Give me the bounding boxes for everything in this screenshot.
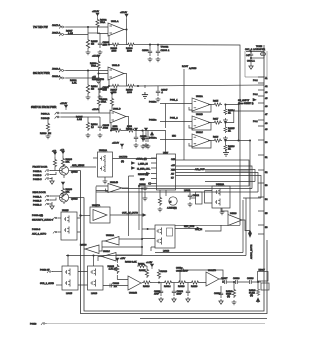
svg-text:R3010: R3010 xyxy=(178,286,185,288)
svg-text:TP3002: TP3002 xyxy=(161,47,169,49)
power up arrow xyxy=(150,132,153,138)
transistor Q3015 xyxy=(59,193,78,202)
wire output to node column xyxy=(124,29,127,31)
svg-text:P3-2: P3-2 xyxy=(253,121,258,123)
junction xyxy=(138,185,139,186)
svg-text:P3013: P3013 xyxy=(30,324,37,326)
resistor R3015 xyxy=(139,266,149,278)
junction xyxy=(80,215,82,217)
svg-text:C3013: C3013 xyxy=(113,283,120,285)
wire xyxy=(136,44,151,46)
ground xyxy=(220,208,225,215)
svg-text:TONE: TONE xyxy=(256,46,263,48)
wire xyxy=(61,117,88,121)
svg-text:1000: 1000 xyxy=(127,126,133,128)
svg-text:(A): (A) xyxy=(121,160,124,163)
ground big xyxy=(142,92,148,98)
wire xyxy=(50,171,59,180)
wire xyxy=(96,186,129,191)
wire emitter down + ground xyxy=(50,175,64,184)
junction xyxy=(93,255,94,256)
op-amp U302B xyxy=(189,114,211,130)
connector pin J1018-A xyxy=(52,68,66,73)
svg-text:100P: 100P xyxy=(177,294,183,296)
svg-text:J3017-A: J3017-A xyxy=(52,32,61,35)
svg-text:1M: 1M xyxy=(91,44,94,46)
svg-text:P301_1: P301_1 xyxy=(170,100,178,102)
svg-text:U3014B: U3014B xyxy=(110,182,118,184)
wire xyxy=(251,57,264,59)
resistor R1030 xyxy=(126,43,135,52)
resistor R3018 xyxy=(157,269,167,279)
connector P3-2 edge rail xyxy=(263,45,265,240)
resistor R1024 xyxy=(86,121,98,131)
connector pins xyxy=(45,195,51,201)
resistor R1020 xyxy=(120,84,135,93)
feedback box inner xyxy=(84,198,264,312)
capacitor C311 xyxy=(144,128,149,148)
ground xyxy=(223,118,228,123)
svg-text:X1R: X1R xyxy=(171,170,176,172)
svg-text:C3012: C3012 xyxy=(193,195,200,197)
svg-text:M: M xyxy=(170,202,172,204)
net label P3010_3 xyxy=(149,136,176,140)
svg-text:U302B: U302B xyxy=(196,114,203,116)
wire to op-amp + xyxy=(99,70,109,74)
wire feedback xyxy=(109,80,111,86)
net ROST_Av7059 xyxy=(182,66,197,160)
svg-text:R319: R319 xyxy=(213,137,219,139)
svg-text:P3015-C: P3015-C xyxy=(33,179,42,181)
wire xyxy=(88,116,100,118)
svg-text:P3011-A: P3011-A xyxy=(33,196,42,199)
junction xyxy=(250,57,251,58)
node label C3C_A xyxy=(245,46,265,51)
svg-text:C3017: C3017 xyxy=(221,278,228,280)
svg-text:J3018-A: J3018-A xyxy=(52,68,61,71)
svg-text:REAR DOOR: REAR DOOR xyxy=(33,191,47,194)
net D/A xyxy=(195,225,221,231)
resistor R1032 xyxy=(96,18,107,28)
svg-text:P301_2: P301_2 xyxy=(170,118,178,120)
capacitor C3017 series xyxy=(221,278,232,284)
wire xyxy=(200,279,223,283)
ground xyxy=(103,177,108,184)
svg-text:1.0M: 1.0M xyxy=(68,33,73,35)
svg-text:R317: R317 xyxy=(213,119,219,121)
svg-text:R1023: R1023 xyxy=(40,133,47,135)
svg-text:C3C7A8: C3C7A8 xyxy=(119,156,128,159)
svg-text:J3017-A: J3017-A xyxy=(52,24,61,27)
wire xyxy=(142,229,155,251)
svg-text:C3C_A: C3C_A xyxy=(245,48,253,51)
power +15.0V xyxy=(92,55,100,60)
svg-text:4.5MH(M): 4.5MH(M) xyxy=(167,208,177,210)
bias divider chain xyxy=(92,88,108,113)
resistor R1028 label xyxy=(70,80,77,85)
resistor R317 xyxy=(211,119,222,125)
wire xyxy=(87,71,89,79)
net label R3020 xyxy=(120,258,137,264)
junction xyxy=(158,282,159,283)
svg-text:10K: 10K xyxy=(66,162,70,164)
resistor R1015 xyxy=(86,38,98,50)
resistor R1019 xyxy=(112,126,123,132)
ground xyxy=(86,133,91,138)
svg-text:AUDIO_MUTE: AUDIO_MUTE xyxy=(250,244,253,259)
junction xyxy=(225,104,226,105)
connector pin J1017-A xyxy=(52,24,66,29)
net label P3010_1 xyxy=(149,100,178,104)
svg-text:P3015-B: P3015-B xyxy=(33,175,42,177)
wire xyxy=(50,196,59,204)
svg-text:R315: R315 xyxy=(213,101,219,103)
svg-text:Q3015: Q3015 xyxy=(71,199,78,201)
ground xyxy=(98,95,103,100)
svg-text:U301C: U301C xyxy=(103,251,110,253)
junction xyxy=(147,228,148,229)
svg-text:R3020 2.2K: R3020 2.2K xyxy=(125,262,137,264)
ground xyxy=(141,144,146,149)
capacitor C3013 xyxy=(110,283,120,288)
IC L3015 xyxy=(62,266,78,295)
net REF_DCS xyxy=(175,226,200,230)
svg-text:1000: 1000 xyxy=(127,50,133,52)
svg-text:R3110: R3110 xyxy=(191,286,198,288)
svg-text:MKF: MKF xyxy=(140,179,145,181)
net OUT_AV_OUT xyxy=(110,212,146,217)
inductor L3010 xyxy=(166,190,177,210)
svg-text:LOUDSPKR: LOUDSPKR xyxy=(253,49,265,51)
wire xyxy=(88,32,100,34)
svg-text:1M: 1M xyxy=(91,89,94,91)
wire channel2 output to right edge xyxy=(136,85,265,86)
resistor R3548 xyxy=(249,282,260,297)
net label P3010_2 xyxy=(149,118,178,122)
resistor R3546 xyxy=(226,282,236,305)
resistor R1033 xyxy=(90,60,100,70)
wire feed 2 xyxy=(155,200,243,253)
wire xyxy=(120,44,127,46)
svg-text:A/D_OUT: A/D_OUT xyxy=(195,168,205,171)
wire to op-amp + input xyxy=(98,28,109,34)
svg-text:AUX_2_AUTO: AUX_2_AUTO xyxy=(32,233,46,236)
wire xyxy=(250,58,252,64)
wire feedback xyxy=(111,123,113,131)
power +15V xyxy=(52,151,57,158)
wire output down xyxy=(126,117,129,131)
svg-text:U3018A: U3018A xyxy=(106,234,114,237)
svg-text:R1021: R1021 xyxy=(126,128,133,130)
connector pins xyxy=(45,170,51,176)
junction xyxy=(141,188,142,189)
small box K3017 xyxy=(261,283,269,290)
power +15V xyxy=(146,261,154,269)
wire from Q3013 right xyxy=(69,170,81,172)
svg-text:ROST: ROST xyxy=(182,66,189,68)
capacitor C3019 series xyxy=(246,278,258,284)
svg-text:R3018: R3018 xyxy=(161,271,168,273)
svg-text:OUT_AV_OUTS: OUT_AV_OUTS xyxy=(122,212,138,215)
wire xyxy=(144,85,146,88)
op-amp U3018A xyxy=(105,234,119,245)
resistor R1025 label xyxy=(76,117,83,122)
svg-text:C1039 .1: C1039 .1 xyxy=(161,50,171,52)
capacitor C1035 xyxy=(98,117,110,131)
connector pin P1064-A xyxy=(41,112,61,116)
svg-text:Av7059: Av7059 xyxy=(189,67,197,70)
capacitor C1047 xyxy=(156,86,168,97)
resistor R1014 xyxy=(86,83,98,95)
node label P3013 xyxy=(30,323,265,326)
wire xyxy=(225,111,258,123)
svg-text:P3030-6: P3030-6 xyxy=(32,229,41,231)
svg-text:(A): (A) xyxy=(227,295,230,298)
wire xyxy=(136,131,166,155)
power +15.0V below xyxy=(112,143,124,150)
junction xyxy=(87,26,88,27)
junction xyxy=(222,281,223,282)
feedback box outer xyxy=(81,171,268,314)
IC L3013 xyxy=(155,225,175,253)
svg-text:1M: 1M xyxy=(48,133,51,135)
wire from Q3015 right xyxy=(69,197,84,199)
capacitor C3018 series xyxy=(232,278,246,284)
svg-text:R1019: R1019 xyxy=(112,128,119,130)
node label REAR DOOR xyxy=(33,191,47,207)
resistor R330 xyxy=(158,190,163,212)
ground open xyxy=(249,64,253,69)
svg-text:.1A: .1A xyxy=(114,285,118,288)
svg-text:P3010s: P3010s xyxy=(149,120,157,122)
wire xyxy=(77,218,81,232)
svg-text:7% THD PW: 7% THD PW xyxy=(33,25,48,29)
ground big xyxy=(223,150,229,156)
wire xyxy=(99,241,142,251)
resistor R3110 xyxy=(187,281,200,288)
svg-text:C3018: C3018 xyxy=(233,278,240,280)
wire xyxy=(225,105,238,141)
wire between boxes xyxy=(78,272,88,286)
wire xyxy=(66,35,89,39)
junction xyxy=(98,73,99,74)
svg-text:MIC: MIC xyxy=(172,136,176,138)
vertical bus xyxy=(165,104,167,129)
wire xyxy=(225,140,250,142)
svg-text:+15.0V: +15.0V xyxy=(92,109,100,111)
resistor R319 xyxy=(211,137,222,143)
wire xyxy=(66,78,89,83)
node label SUB_2_AUX xyxy=(40,282,62,285)
IC U3015 xyxy=(61,210,77,240)
junction xyxy=(108,85,109,86)
capacitor C3011 xyxy=(154,283,163,303)
svg-text:+15.0V: +15.0V xyxy=(120,12,128,14)
wire junction xyxy=(157,44,158,45)
wire feedback top xyxy=(180,269,223,283)
svg-text:P3011-C: P3011-C xyxy=(33,205,42,207)
net labels caps xyxy=(176,268,189,273)
net +15 R1029 xyxy=(92,77,105,82)
capacitor C3015 xyxy=(186,283,190,303)
wire input xyxy=(81,215,91,217)
rail third xyxy=(140,318,267,320)
op-amp U3019B xyxy=(128,276,141,295)
svg-text:+15.0V: +15.0V xyxy=(92,11,100,13)
IC U3017A xyxy=(90,204,110,223)
node label AUX AUTO xyxy=(32,229,61,236)
resistor R3021 xyxy=(137,264,147,268)
svg-text:(from SHEET 2): (from SHEET 2) xyxy=(238,102,254,105)
junction xyxy=(110,130,111,131)
net SE_AMPLT xyxy=(238,99,256,106)
wire xyxy=(152,282,164,284)
svg-text:SUB_2_AUX8: SUB_2_AUX8 xyxy=(40,282,55,285)
resistor R3016 xyxy=(141,281,152,288)
power +15.0V xyxy=(92,11,100,18)
ground xyxy=(96,74,101,84)
svg-text:P3-2: P3-2 xyxy=(253,80,258,82)
ground xyxy=(146,144,151,149)
svg-text:AU: AU xyxy=(171,173,174,176)
svg-text:C4P: C4P xyxy=(246,55,251,57)
small box xyxy=(190,192,202,204)
resistor R3010 xyxy=(173,281,187,288)
wire xyxy=(87,27,89,35)
svg-text:C3016: C3016 xyxy=(214,293,221,295)
svg-text:U4019A: U4019A xyxy=(216,183,224,186)
svg-text:P1064-A: P1064-A xyxy=(41,113,50,116)
resistor R3035 xyxy=(53,157,56,171)
wire xyxy=(61,112,110,114)
wire xyxy=(66,70,89,72)
resistor R320 xyxy=(224,141,235,151)
svg-text:(A): (A) xyxy=(250,294,253,297)
wire to op-amp - xyxy=(109,112,112,114)
node label FRONT DOOR xyxy=(33,167,48,182)
svg-text:470P: 470P xyxy=(154,294,160,296)
svg-text:U302A: U302A xyxy=(196,95,203,98)
junction xyxy=(225,122,226,123)
IC U4019 xyxy=(205,183,231,208)
svg-text:U302C: U302C xyxy=(196,132,203,134)
power +15V xyxy=(60,150,65,157)
power +15.0V feed xyxy=(110,92,113,110)
svg-text:P3-2: P3-2 xyxy=(253,94,258,96)
svg-text:P3011-B: P3011-B xyxy=(33,201,42,203)
resistor R3036 xyxy=(61,156,72,167)
svg-text:P3010a: P3010a xyxy=(149,138,157,140)
wire channel1 output to top right xyxy=(150,45,240,226)
svg-text:.0033: .0033 xyxy=(103,128,109,130)
net A/D xyxy=(195,168,249,171)
svg-text:Q3013: Q3013 xyxy=(71,172,78,174)
resistor R1021 xyxy=(122,126,135,132)
resistor R3014 xyxy=(163,281,173,288)
svg-text:+15.0V: +15.0V xyxy=(60,103,68,105)
svg-text:FRONT DOOR: FRONT DOOR xyxy=(33,167,48,169)
ground xyxy=(143,184,148,191)
node label SECURITY AUDIO xyxy=(32,215,61,222)
connector pin J1017-B xyxy=(52,32,66,37)
resistor R315 xyxy=(211,101,222,107)
op-amp U3014 xyxy=(106,182,123,193)
node label P3016 xyxy=(40,270,62,273)
wire feed xyxy=(66,198,246,266)
resistor R1027 label xyxy=(66,31,73,36)
svg-text:R3015: R3015 xyxy=(139,270,146,272)
ground xyxy=(223,136,228,141)
junction xyxy=(126,29,127,30)
svg-text:+WMA_(S): +WMA_(S) xyxy=(136,158,147,161)
svg-text:P3010s: P3010s xyxy=(149,102,157,104)
junction xyxy=(141,246,142,247)
connector pin ticks xyxy=(253,77,268,234)
connector pin J1018-B xyxy=(52,75,66,80)
junction xyxy=(108,44,109,45)
capacitor C1039 xyxy=(156,45,170,56)
svg-text:R3014: R3014 xyxy=(164,286,171,288)
junction xyxy=(141,238,142,239)
svg-text:2000: 2000 xyxy=(113,126,119,128)
op-amp U3027B xyxy=(206,270,219,286)
svg-text:+15.3V: +15.3V xyxy=(100,89,108,91)
ground small xyxy=(143,192,148,201)
net AUD_MEAN xyxy=(63,164,96,167)
capacitor C310 xyxy=(134,128,139,148)
capacitor C4P2 xyxy=(247,56,264,63)
svg-text:R3021: R3021 xyxy=(138,264,145,266)
svg-text:U301-D: U301-D xyxy=(113,109,121,111)
junction xyxy=(257,281,258,282)
svg-text:SE_AMPLT: SE_AMPLT xyxy=(238,99,250,102)
junction node xyxy=(142,130,143,131)
net label C3C7A8 xyxy=(119,156,128,164)
svg-text:AUD_MEAN: AUD_MEAN xyxy=(72,164,85,167)
svg-text:P3030-4(5): P3030-4(5) xyxy=(32,215,43,217)
svg-text:J3018-A: J3018-A xyxy=(52,75,61,78)
small box K3018 xyxy=(258,270,269,283)
junction node xyxy=(149,44,150,45)
op-amp U301-A xyxy=(108,20,124,36)
svg-text:U307: U307 xyxy=(163,153,169,155)
junction node xyxy=(137,85,138,86)
svg-text:U301-B: U301-B xyxy=(112,65,120,67)
resistor R3038 xyxy=(61,187,72,197)
svg-text:K3017: K3017 xyxy=(259,270,266,272)
wire output down xyxy=(124,74,127,87)
vertical xyxy=(95,187,97,208)
ground xyxy=(98,50,103,55)
resistor R318 xyxy=(224,123,235,134)
wire xyxy=(160,139,192,141)
ground xyxy=(156,57,161,62)
svg-text:2200: 2200 xyxy=(103,45,109,47)
capacitor C4P xyxy=(246,52,253,58)
svg-text:(L): (L) xyxy=(91,127,94,129)
node label SWITCH FROM PWR xyxy=(31,105,56,109)
wire vertical feeds xyxy=(129,176,143,255)
wire from ch1 column xyxy=(175,224,240,226)
ground xyxy=(46,134,51,139)
op-amp U302C xyxy=(189,132,211,148)
svg-text:R3016: R3016 xyxy=(143,286,150,288)
svg-text:U3016A: U3016A xyxy=(99,149,107,152)
capacitor C1050 xyxy=(140,131,147,143)
wire xyxy=(88,77,100,79)
svg-text:1.0M: 1.0M xyxy=(77,119,82,121)
wire to out box xyxy=(258,281,261,283)
